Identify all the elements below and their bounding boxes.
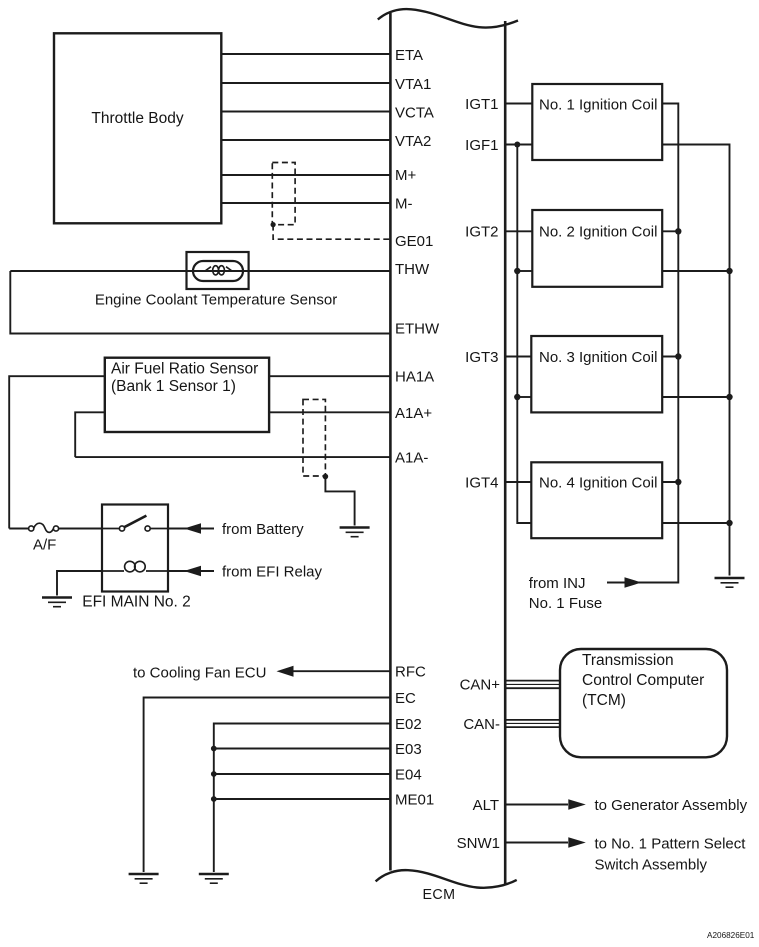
wire +B bus [607,104,678,583]
svg-text:from INJ: from INJ [529,575,586,592]
TCM box [560,649,727,757]
svg-text:RFC: RFC [395,664,426,681]
ground (EFI MAIN) [42,598,72,607]
fuse A/F [29,523,59,532]
junction dot IGF1 [514,142,520,148]
wire HA1A [9,376,390,528]
svg-text:Switch Assembly: Switch Assembly [595,856,708,873]
wire IGT2 [505,230,532,232]
shield dashed box (A1A) [303,399,325,476]
ECM body [376,9,518,888]
ground (A1A shield) [340,528,370,537]
ground (ignition coils) [715,578,745,587]
wire CAN+ (shielded 3-line) [505,681,560,689]
svg-text:ETA: ETA [395,47,423,64]
svg-text:No. 1 Ignition Coil: No. 1 Ignition Coil [539,96,657,113]
ignition coil U4 box [531,462,662,538]
svg-text:A206826E01: A206826E01 [707,931,755,940]
svg-text:VTA1: VTA1 [395,76,431,93]
svg-text:HA1A: HA1A [395,369,434,386]
wire IGT3 [505,356,531,358]
ignition coil U3 box [531,336,662,412]
svg-text:EC: EC [395,690,416,707]
svg-text:M+: M+ [395,167,416,184]
wire coil2 +B [662,230,678,232]
arrowhead from EFI Relay [184,566,201,577]
svg-text:Engine Coolant Temperature Sen: Engine Coolant Temperature Sensor [95,292,337,309]
relay EFI MAIN No.2 box [102,505,168,592]
svg-text:E03: E03 [395,741,422,758]
svg-text:IGT1: IGT1 [465,96,498,113]
ground (E02) [199,874,229,883]
svg-text:CAN+: CAN+ [460,677,501,694]
wire VTA2 [221,139,390,141]
from INJ No.1 Fuse label [529,575,602,612]
wire E03 [214,748,391,750]
to No.1 Pattern Select Switch Assembly label [595,835,747,873]
svg-text:A1A-: A1A- [395,449,428,466]
coolant sensor element [193,261,243,281]
wire IGT4 [505,481,531,483]
svg-text:EFI MAIN No. 2: EFI MAIN No. 2 [82,594,191,611]
wire ETHW [10,271,390,334]
svg-text:GE01: GE01 [395,233,433,250]
relay switch contacts [102,526,168,531]
wire coil3 +B [662,356,678,358]
wire EC [144,698,391,873]
wire GE01 (dashed shield drain) [273,225,390,240]
svg-text:E04: E04 [395,767,422,784]
TCM label [582,652,704,709]
wire M+ [221,174,390,176]
svg-text:Transmission: Transmission [582,652,674,669]
wire RFC [293,670,390,672]
svg-text:Control Computer: Control Computer [582,672,704,689]
svg-text:SNW1: SNW1 [457,835,500,852]
wire A1A- [75,456,390,458]
wire coil4 +B [662,481,678,483]
wire ME01 [214,798,391,800]
Air Fuel Ratio Sensor box [105,358,269,432]
junction dot ME01 [211,796,217,802]
svg-text:VCTA: VCTA [395,105,434,122]
arrowhead RFC [277,666,294,677]
wire IGT1 [505,103,532,105]
svg-text:No. 4 Ignition Coil: No. 4 Ignition Coil [539,474,657,491]
svg-text:(TCM): (TCM) [582,692,626,709]
svg-text:A1A+: A1A+ [395,405,432,422]
wire IGF bus [517,145,531,524]
svg-text:ETHW: ETHW [395,320,440,337]
wire CAN- (shielded 3-line) [505,720,560,727]
wire coil4 gnd [662,522,729,524]
svg-text:No. 1 Fuse: No. 1 Fuse [529,595,602,612]
shield dashed box (M+/M-) [272,163,295,225]
relay coil [102,561,168,572]
junction dot coil3 gnd [726,394,732,400]
junction dot coil2 +B [675,228,681,234]
wire IGF coil3 [517,396,531,398]
wire E04 [214,773,391,775]
svg-text:from Battery: from Battery [222,521,304,538]
wire ground bus [662,145,729,576]
wire from EFI Relay arrow [168,570,214,572]
svg-text:to Generator Assembly: to Generator Assembly [595,797,748,814]
arrowhead INJ feed [625,577,642,588]
svg-text:Throttle Body: Throttle Body [91,110,183,127]
junction dot A1A shield [323,474,329,480]
wire E02 [214,724,391,873]
wire ETA [221,53,390,55]
junction dot IGF coil2 [514,268,520,274]
junction dot coil4 +B [675,479,681,485]
wire M- [221,202,390,204]
Throttle Body box [54,33,221,223]
wire battery feed [9,528,102,530]
svg-text:A/F: A/F [33,537,56,554]
svg-text:IGT2: IGT2 [465,224,498,241]
wire shield drain to ground [325,477,354,526]
svg-text:THW: THW [395,261,430,278]
svg-text:No. 2 Ignition Coil: No. 2 Ignition Coil [539,224,657,241]
svg-text:IGF1: IGF1 [465,137,498,154]
wire VCTA [221,111,390,113]
junction dot coil3 +B [675,353,681,359]
junction dot E04 [211,771,217,777]
svg-text:from EFI Relay: from EFI Relay [222,563,323,580]
wire SNW1 [505,842,568,844]
wire THW [10,270,390,272]
wire A1A+ [75,412,390,457]
Air Fuel Ratio Sensor label [111,360,258,395]
arrowhead ALT [568,799,586,810]
junction dot IGF coil3 [514,394,520,400]
arrowhead SNW1 [568,837,586,848]
arrowhead from Battery [184,523,201,534]
wire VTA1 [221,82,390,84]
junction dot coil4 gnd [726,520,732,526]
svg-text:ECM: ECM [423,887,456,903]
svg-text:(Bank 1 Sensor 1): (Bank 1 Sensor 1) [111,378,236,395]
wire coil2 gnd [662,270,729,272]
junction dot GE01 shield [271,222,276,227]
svg-text:No. 3 Ignition Coil: No. 3 Ignition Coil [539,349,657,366]
junction dot coil2 gnd [726,268,732,274]
wire ALT [505,804,568,806]
svg-text:IGT3: IGT3 [465,349,498,366]
wire IGF1 [505,144,532,146]
svg-text:ME01: ME01 [395,792,434,809]
wire IGF coil2 [517,270,532,272]
svg-text:E02: E02 [395,716,422,733]
svg-text:to No. 1 Pattern Select: to No. 1 Pattern Select [595,835,747,852]
wire coil3 gnd [662,396,729,398]
svg-text:M-: M- [395,196,413,213]
svg-text:to Cooling Fan ECU: to Cooling Fan ECU [133,664,266,681]
ignition coil U1 box [532,84,662,160]
svg-text:IGT4: IGT4 [465,474,498,491]
svg-text:Air Fuel Ratio Sensor: Air Fuel Ratio Sensor [111,360,258,377]
svg-text:ALT: ALT [473,797,499,814]
relay switch blade [124,516,146,528]
wire from Battery arrow [168,528,214,530]
coolant sensor outer box [187,252,249,289]
svg-text:CAN-: CAN- [463,716,500,733]
ground (EC) [129,874,159,883]
svg-text:VTA2: VTA2 [395,133,431,150]
wire relay coil to ground [57,571,102,596]
ignition coil U2 box [532,210,662,287]
junction dot E03 [211,746,217,752]
